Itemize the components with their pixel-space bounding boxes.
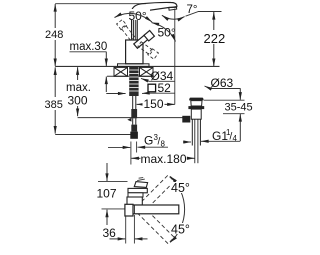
supply end fitting <box>130 132 138 139</box>
text max. 300 <box>66 80 90 106</box>
waste upper body <box>191 101 202 106</box>
lever ghost left (dashed) <box>117 20 136 41</box>
svg-text:45°: 45° <box>171 181 190 195</box>
svg-text:max.: max. <box>66 82 91 94</box>
dim 107 upper arrow <box>106 163 108 181</box>
junction diamond on hose line <box>127 118 131 122</box>
svg-text:222: 222 <box>204 31 226 46</box>
waste deck bottom line <box>223 113 245 115</box>
svg-text:G: G <box>144 134 153 148</box>
plan lever arm <box>128 188 147 192</box>
dia34 underline and arrow <box>141 78 175 81</box>
50deg lower arc with arrows <box>152 23 176 42</box>
svg-text:35-45: 35-45 <box>225 102 253 114</box>
waste tailpipe inner walls <box>194 119 196 163</box>
waste seal ring <box>188 106 204 109</box>
svg-text:36: 36 <box>103 226 117 240</box>
waste deck top line <box>204 99 245 101</box>
waste flange <box>189 98 204 101</box>
dimension 248 vertical line <box>54 4 56 66</box>
plan lever top detail <box>137 178 145 181</box>
aerator at spout tip <box>169 7 177 11</box>
svg-text:max.180: max.180 <box>141 152 187 166</box>
counter bottom line <box>107 75 154 77</box>
dimension max30 underline <box>70 51 107 53</box>
text 45deg upper <box>171 182 192 193</box>
text 222 <box>203 30 225 44</box>
waste lower body <box>191 109 201 119</box>
threaded shank below counter <box>129 66 138 96</box>
50deg upper arc with arrows <box>115 13 153 22</box>
dimension max180 left arrow <box>131 157 140 159</box>
G1 1/4 underline and arrow <box>201 140 240 142</box>
svg-text:max.30: max.30 <box>70 41 108 53</box>
svg-text:150: 150 <box>144 97 164 111</box>
supply pipe below shank <box>133 96 136 109</box>
spout neck double walls <box>131 11 133 40</box>
dimension max300 vertical line <box>77 67 79 116</box>
7deg arc under spout tip <box>162 15 185 19</box>
ghost spout down 45 (dashed) <box>137 206 174 243</box>
extension line below supply right <box>136 142 138 153</box>
text 50deg upper <box>127 9 150 20</box>
counter top line <box>55 65 219 67</box>
hose reference line y117.5 <box>78 117 183 119</box>
plan lever tip <box>134 182 147 188</box>
lever front extension line <box>98 181 128 183</box>
G1 1/4 label <box>212 128 238 143</box>
G3/8 underline and arrow <box>138 146 169 148</box>
faucet body <box>126 40 143 64</box>
waste tailpipe outer walls <box>191 119 193 145</box>
text 45deg lower <box>170 223 191 234</box>
extension line from spout tip down <box>174 9 176 105</box>
plan end cap <box>125 204 133 216</box>
dimension 385 vertical line <box>54 67 56 133</box>
svg-text:Ø63: Ø63 <box>211 76 234 90</box>
dim 107 lower arrow <box>106 210 108 225</box>
dimension max30 lower arrow <box>105 77 107 93</box>
text 50deg lower <box>157 26 180 37</box>
plan swivel joint line <box>133 205 135 214</box>
spout outline <box>132 2 177 11</box>
extension line below supply left <box>130 142 132 165</box>
dimension max30 upper arrow <box>105 52 107 66</box>
square52 opposing arrow from left <box>106 93 125 95</box>
X washer left under counter <box>114 67 128 76</box>
dimension 150 <box>137 103 175 105</box>
dia34 label <box>151 69 174 83</box>
dimension 222 vertical line <box>213 12 215 66</box>
waste pipe opposing arrow left <box>183 141 191 143</box>
top reference line at spout level <box>55 3 146 5</box>
base plate on counter <box>118 64 150 67</box>
plan body <box>127 197 142 205</box>
svg-text:45°: 45° <box>171 223 190 237</box>
7deg leader line to 222 <box>186 12 222 17</box>
dim 36 left arrow <box>110 238 126 240</box>
dimension max180 right arrow <box>189 157 195 159</box>
dim 35-45 lower arrow <box>239 114 241 141</box>
ghost spout up 45 (dashed) <box>137 175 174 212</box>
bottom reference line (385) <box>55 134 134 136</box>
svg-text:50°: 50° <box>129 9 147 23</box>
text 385 <box>44 97 65 110</box>
dim 36 right arrow <box>135 238 148 240</box>
lever solid <box>134 31 155 50</box>
lever ghost right (dashed) <box>137 41 158 59</box>
G3/8 opposing arrow from left <box>108 146 130 148</box>
svg-text:385: 385 <box>45 99 63 111</box>
dim 36 extension lines <box>125 217 127 244</box>
svg-text:107: 107 <box>97 187 117 201</box>
svg-text:52: 52 <box>158 81 172 95</box>
spout axis extension line <box>102 208 126 210</box>
G3/8 label <box>144 133 166 148</box>
text 248 <box>44 28 65 40</box>
swivel arc 45-45 <box>170 176 184 242</box>
waste pull-rod boss <box>182 116 190 123</box>
X washer right under counter <box>140 67 154 76</box>
plan spout <box>128 205 179 214</box>
threaded section 2 <box>133 118 136 124</box>
svg-text:300: 300 <box>68 94 88 108</box>
svg-text:248: 248 <box>45 29 63 41</box>
square52 label <box>148 81 171 95</box>
threaded section 1 <box>131 109 137 118</box>
square52 underline and arrow <box>142 92 175 94</box>
dia63 underline and arrow <box>205 86 241 89</box>
dim 35-45 upper arrow <box>239 89 241 100</box>
